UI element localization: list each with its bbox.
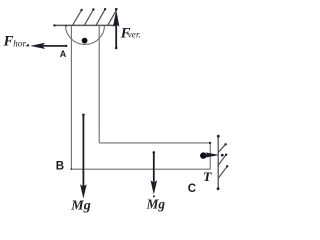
ceiling hatch 3 bbox=[96, 9, 105, 25]
pulley arc bbox=[66, 25, 105, 44]
wire: rod bottom edge bbox=[71, 168, 210, 170]
node pin dot at rod end bbox=[200, 152, 206, 158]
svg-text:B: B bbox=[56, 160, 64, 172]
T reaction arrow bbox=[203, 152, 223, 157]
wall hatch 1 bbox=[218, 144, 226, 152]
pulley arc left junction dot bbox=[65, 25, 67, 27]
F_hor arrow bbox=[27, 43, 68, 49]
wall hatch 2 end dot bbox=[225, 154, 227, 156]
ceiling hatch 2 end dot bbox=[92, 8, 94, 10]
wall hatch 3 bbox=[218, 166, 227, 178]
wire: rod top edge bbox=[99, 142, 210, 144]
ceiling hatch 3 end dot bbox=[104, 8, 106, 10]
svg-text:ver.: ver. bbox=[128, 29, 142, 39]
wall line bbox=[217, 136, 219, 189]
ceiling hatch 4 bbox=[108, 10, 117, 26]
svg-text:Mg: Mg bbox=[146, 197, 166, 212]
wire: right rope bbox=[98, 25, 100, 142]
ceiling line left end dot bbox=[53, 24, 55, 26]
wire: rod right end cap bbox=[209, 142, 211, 169]
svg-text:T: T bbox=[203, 169, 213, 184]
F_ver arrow bbox=[113, 8, 119, 49]
wall hatch 3 end dot bbox=[226, 165, 228, 167]
node B corner junction dot bbox=[71, 168, 73, 170]
ceiling hatch 1 bbox=[73, 10, 82, 25]
wall hatch 1 end dot bbox=[224, 143, 226, 145]
svg-text:A: A bbox=[60, 49, 67, 59]
svg-text:hor.: hor. bbox=[13, 38, 27, 48]
ceiling hatch 1 end dot bbox=[80, 9, 82, 11]
wire: left rope bbox=[70, 25, 72, 169]
left Mg weight arrow bbox=[80, 114, 87, 199]
pulley axle dot bbox=[82, 38, 88, 44]
wall bottom end dot bbox=[217, 187, 220, 190]
rod corner dot bbox=[209, 142, 211, 144]
wall top end dot bbox=[217, 135, 220, 138]
svg-text:Mg: Mg bbox=[70, 199, 90, 214]
svg-text:F: F bbox=[3, 34, 14, 50]
svg-text:C: C bbox=[188, 183, 196, 195]
ceiling hatch 2 bbox=[84, 10, 93, 26]
right Mg weight arrow bbox=[151, 151, 158, 197]
wall hatch 2 bbox=[218, 155, 226, 166]
ceiling line bbox=[54, 24, 117, 26]
